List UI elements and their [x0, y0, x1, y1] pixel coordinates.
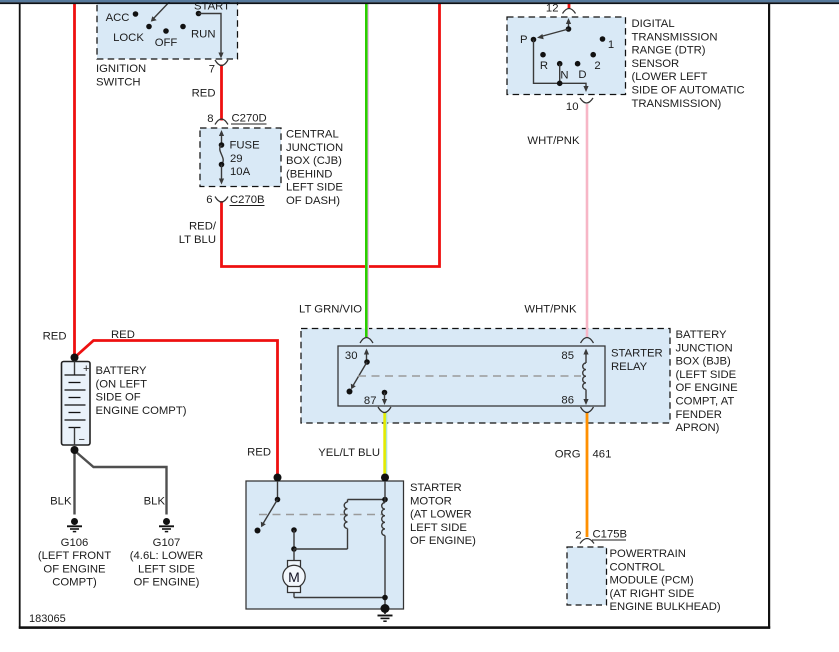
svg-text:RELAY: RELAY — [611, 361, 648, 373]
svg-text:ENGINE BULKHEAD): ENGINE BULKHEAD) — [610, 601, 721, 613]
svg-text:DIGITAL: DIGITAL — [632, 18, 675, 30]
starter motor label — [410, 482, 476, 547]
wire YEL/LT BLU relay pin87 to starter motor — [385, 413, 387, 476]
fuse 29 10A — [219, 130, 260, 185]
svg-text:SIDE OF: SIDE OF — [96, 392, 141, 404]
svg-text:APRON): APRON) — [676, 422, 720, 434]
svg-text:(ON LEFT: (ON LEFT — [96, 378, 148, 390]
ground G106 — [38, 518, 111, 589]
pin 6 connector C270B — [206, 194, 264, 206]
label WHT/PNK lower — [524, 304, 577, 316]
PCM box — [567, 547, 607, 605]
relay pin 30 connector — [345, 338, 373, 363]
ignition switch label — [96, 63, 146, 88]
starter solenoid hold-in winding / main line — [382, 481, 385, 608]
svg-text:87: 87 — [364, 395, 377, 407]
motor M — [283, 549, 388, 600]
svg-text:ENGINE COMPT): ENGINE COMPT) — [96, 405, 187, 417]
svg-text:461: 461 — [593, 449, 612, 461]
svg-text:STARTER: STARTER — [410, 482, 462, 494]
wire RED left vertical to battery — [73, 3, 76, 355]
svg-text:STARTER: STARTER — [611, 348, 663, 360]
svg-text:TRANSMISSION: TRANSMISSION — [632, 31, 718, 43]
svg-text:D: D — [578, 69, 586, 81]
CJB label — [286, 129, 343, 208]
svg-text:ACC: ACC — [106, 12, 130, 24]
label RED/LT BLU — [179, 221, 217, 247]
svg-text:2: 2 — [575, 530, 581, 542]
svg-text:2: 2 — [594, 60, 600, 72]
svg-text:OFF: OFF — [155, 37, 178, 49]
svg-text:CENTRAL: CENTRAL — [286, 129, 339, 141]
wire RED ignition pin7 to CJB pin8 — [220, 65, 223, 121]
PCM pin 2 connector C175B — [575, 529, 627, 544]
svg-text:(AT LOWER: (AT LOWER — [410, 509, 472, 521]
ignition switch box fill — [97, 0, 238, 59]
label YEL/LT BLU — [318, 447, 380, 459]
svg-text:OF ENGINE): OF ENGINE) — [410, 535, 476, 547]
svg-text:G106: G106 — [61, 537, 89, 549]
label WHT/PNK upper — [527, 135, 580, 147]
svg-text:FUSE: FUSE — [230, 140, 261, 152]
svg-text:(LEFT SIDE: (LEFT SIDE — [676, 369, 737, 381]
label BLK G107 — [144, 496, 166, 508]
relay coil — [583, 349, 589, 406]
node starter B+ terminal — [274, 474, 282, 482]
svg-text:BOX (CJB): BOX (CJB) — [286, 155, 342, 167]
wire WHT/PNK DTR pin10 to relay pin85 — [586, 104, 589, 337]
DTR sensor label — [632, 18, 745, 110]
svg-text:(LOWER LEFT: (LOWER LEFT — [632, 71, 708, 83]
svg-text:OF ENGINE: OF ENGINE — [676, 382, 739, 394]
wire RED battery branch to starter motor — [75, 341, 278, 476]
svg-text:LT GRN/VIO: LT GRN/VIO — [299, 304, 362, 316]
DTR sensor internals — [520, 3, 614, 93]
svg-text:(BEHIND: (BEHIND — [286, 168, 332, 180]
wire BLK battery to G107 — [76, 452, 167, 515]
svg-text:RED/: RED/ — [189, 221, 217, 233]
svg-text:(AT RIGHT SIDE: (AT RIGHT SIDE — [610, 588, 695, 600]
svg-text:BOX (BJB): BOX (BJB) — [676, 356, 731, 368]
CJB fuse box — [200, 128, 281, 187]
wire RED stub DTR pin12 — [568, 3, 571, 9]
svg-text:183065: 183065 — [29, 613, 66, 625]
svg-text:M: M — [288, 569, 300, 585]
svg-text:−: − — [79, 434, 85, 446]
svg-text:8: 8 — [207, 113, 213, 125]
svg-text:RUN: RUN — [191, 29, 215, 41]
svg-text:RED: RED — [192, 88, 216, 100]
wire ORG relay pin86 to PCM — [586, 413, 589, 538]
svg-text:85: 85 — [561, 350, 574, 362]
svg-text:ORG: ORG — [555, 449, 581, 461]
svg-text:12: 12 — [546, 3, 559, 15]
svg-text:C175B: C175B — [593, 529, 628, 541]
battery label — [96, 365, 187, 417]
svg-text:(4.6L: LOWER: (4.6L: LOWER — [130, 550, 203, 562]
relay pin 87 lower connector — [378, 407, 391, 413]
svg-text:LEFT SIDE: LEFT SIDE — [410, 522, 467, 534]
svg-text:29: 29 — [230, 153, 243, 165]
ignition switch internals — [106, 0, 231, 59]
wire RED/LT BLU from CJB pin6 right and up — [222, 3, 440, 267]
svg-text:P: P — [520, 34, 528, 46]
wire LT GRN/VIO to relay pin30 — [366, 3, 368, 337]
svg-text:TRANSMISSION): TRANSMISSION) — [632, 98, 722, 110]
wire BLK battery to G106 — [73, 452, 75, 515]
label LT GRN/VIO — [299, 304, 362, 316]
starter motor case ground — [378, 604, 393, 621]
svg-text:G107: G107 — [153, 537, 181, 549]
label RED at battery — [43, 331, 67, 343]
svg-text:FENDER: FENDER — [676, 409, 722, 421]
relay pin 86 connector — [561, 395, 593, 413]
svg-text:MODULE (PCM): MODULE (PCM) — [610, 575, 694, 587]
svg-text:MOTOR: MOTOR — [410, 495, 452, 507]
svg-text:JUNCTION: JUNCTION — [676, 342, 733, 354]
svg-text:IGNITION: IGNITION — [96, 63, 146, 75]
svg-text:COMPT, AT: COMPT, AT — [676, 396, 735, 408]
svg-text:OF ENGINE: OF ENGINE — [43, 563, 106, 575]
relay pin 85 connector — [561, 338, 593, 363]
svg-text:YEL/LT BLU: YEL/LT BLU — [318, 447, 380, 459]
svg-text:JUNCTION: JUNCTION — [286, 142, 343, 154]
node battery positive — [71, 354, 79, 362]
pin 10 connector — [566, 98, 593, 113]
svg-text:LEFT SIDE: LEFT SIDE — [138, 563, 195, 575]
label ORG — [555, 449, 581, 461]
battery junction box BJB — [301, 329, 670, 424]
svg-text:N: N — [560, 70, 568, 82]
relay dashed linkage — [358, 375, 581, 377]
svg-text:COMPT): COMPT) — [52, 577, 97, 589]
svg-text:WHT/PNK: WHT/PNK — [524, 304, 577, 316]
svg-text:C270D: C270D — [232, 113, 267, 125]
svg-text:WHT/PNK: WHT/PNK — [527, 135, 580, 147]
svg-text:BATTERY: BATTERY — [676, 329, 728, 341]
svg-text:C270B: C270B — [230, 194, 265, 206]
node starter S terminal — [381, 474, 389, 482]
svg-text:RED: RED — [111, 329, 135, 341]
svg-text:LOCK: LOCK — [113, 32, 144, 44]
label BLK G106 — [50, 496, 72, 508]
svg-text:OF DASH): OF DASH) — [286, 195, 340, 207]
svg-text:6: 6 — [206, 194, 212, 206]
svg-text:LT BLU: LT BLU — [179, 234, 216, 246]
svg-text:(LEFT FRONT: (LEFT FRONT — [38, 550, 111, 562]
label RED (ignition feed) — [192, 88, 216, 100]
label RED above branch — [111, 329, 135, 341]
node battery negative — [71, 446, 79, 454]
svg-text:BLK: BLK — [50, 496, 72, 508]
DTR sensor box — [507, 17, 626, 95]
svg-text:10A: 10A — [230, 166, 251, 178]
svg-text:+: + — [83, 363, 89, 375]
BJB label — [676, 329, 739, 434]
pin 8 connector C270D — [207, 113, 266, 126]
svg-text:86: 86 — [561, 395, 574, 407]
pin 7 connector — [209, 60, 228, 76]
svg-text:OF ENGINE): OF ENGINE) — [134, 577, 200, 589]
svg-text:POWERTRAIN: POWERTRAIN — [610, 548, 686, 560]
svg-text:BATTERY: BATTERY — [96, 365, 148, 377]
relay switch — [347, 349, 370, 395]
svg-text:RANGE (DTR): RANGE (DTR) — [632, 45, 706, 57]
PCM label — [610, 548, 721, 613]
ground G107 — [130, 518, 203, 589]
battery — [62, 362, 91, 447]
svg-text:CONTROL: CONTROL — [610, 561, 665, 573]
starter motor box — [246, 481, 404, 609]
svg-text:SIDE OF AUTOMATIC: SIDE OF AUTOMATIC — [632, 85, 745, 97]
diagram id 183065 — [29, 613, 66, 625]
page frame — [0, 0, 839, 2]
svg-text:SWITCH: SWITCH — [96, 76, 141, 88]
svg-text:RED: RED — [247, 447, 271, 459]
starter relay label — [611, 348, 663, 373]
starter solenoid pull-in winding — [291, 497, 388, 552]
starter motor switch — [255, 481, 281, 534]
svg-text:SENSOR: SENSOR — [632, 58, 680, 70]
svg-text:LEFT SIDE: LEFT SIDE — [286, 182, 343, 194]
svg-text:R: R — [540, 60, 548, 72]
svg-text:7: 7 — [209, 64, 215, 76]
label RED at starter — [247, 447, 271, 459]
svg-text:10: 10 — [566, 101, 579, 113]
svg-text:RED: RED — [43, 331, 67, 343]
label 461 — [593, 449, 612, 461]
starter relay box — [338, 346, 605, 406]
relay pin 87 stub — [364, 390, 387, 407]
svg-text:30: 30 — [345, 350, 358, 362]
starter motor dashed linkage — [259, 514, 383, 516]
svg-text:BLK: BLK — [144, 496, 166, 508]
svg-text:1: 1 — [608, 39, 614, 51]
